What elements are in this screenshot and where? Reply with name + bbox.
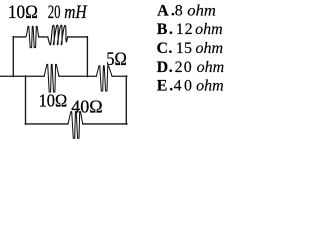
- answer A: [157, 2, 216, 19]
- svg-text:ohm: ohm: [196, 40, 224, 57]
- svg-text:mH: mH: [64, 2, 87, 23]
- svg-text:15: 15: [176, 40, 192, 57]
- svg-text:A: A: [157, 2, 169, 19]
- resistor R4 40ohm bottom branch: [68, 112, 83, 139]
- wire left lead: [0, 75, 44, 77]
- svg-text:.: .: [169, 21, 173, 38]
- wire bottom-left vertical: [25, 76, 27, 124]
- wire top line seg1: [13, 36, 25, 38]
- svg-text:40Ω: 40Ω: [71, 97, 102, 117]
- wire main mid segment: [59, 75, 97, 77]
- resistor R1 10ohm top branch: [25, 26, 38, 47]
- wire bottom-right vertical: [125, 76, 127, 124]
- wire top line seg2: [39, 36, 48, 38]
- answer C: [157, 40, 224, 57]
- resistor R3 5ohm: [96, 66, 112, 91]
- svg-text:5Ω: 5Ω: [106, 49, 127, 70]
- wire main right segment: [112, 75, 127, 77]
- svg-text:E: E: [157, 78, 168, 95]
- svg-text:40: 40: [174, 78, 195, 95]
- wire bottom line seg1: [26, 123, 69, 125]
- wire bottom line seg2: [83, 123, 127, 125]
- svg-text:8: 8: [175, 2, 183, 19]
- answer E: [157, 78, 224, 95]
- svg-text:10Ω: 10Ω: [39, 90, 68, 110]
- svg-text:12: 12: [176, 21, 194, 38]
- wire top line seg3: [68, 36, 88, 38]
- resistor R2 10ohm middle branch: [44, 64, 59, 92]
- answer B: [157, 21, 223, 38]
- svg-text:ohm: ohm: [197, 59, 225, 76]
- svg-text:ohm: ohm: [196, 78, 224, 95]
- svg-text:20: 20: [175, 59, 193, 76]
- svg-text:B: B: [157, 21, 168, 38]
- svg-text:.: .: [169, 59, 173, 76]
- svg-text:ohm: ohm: [187, 2, 216, 19]
- svg-text:ohm: ohm: [195, 21, 223, 38]
- svg-text:20: 20: [48, 2, 61, 23]
- answer D: [157, 59, 225, 76]
- svg-text:C: C: [157, 40, 169, 57]
- svg-text:D: D: [157, 59, 169, 76]
- wire top-left vertical: [12, 37, 14, 77]
- svg-text:10Ω: 10Ω: [8, 3, 38, 23]
- svg-text:.: .: [168, 40, 172, 57]
- wire top-right vertical: [86, 37, 88, 77]
- inductor L1 20mH: [48, 25, 68, 45]
